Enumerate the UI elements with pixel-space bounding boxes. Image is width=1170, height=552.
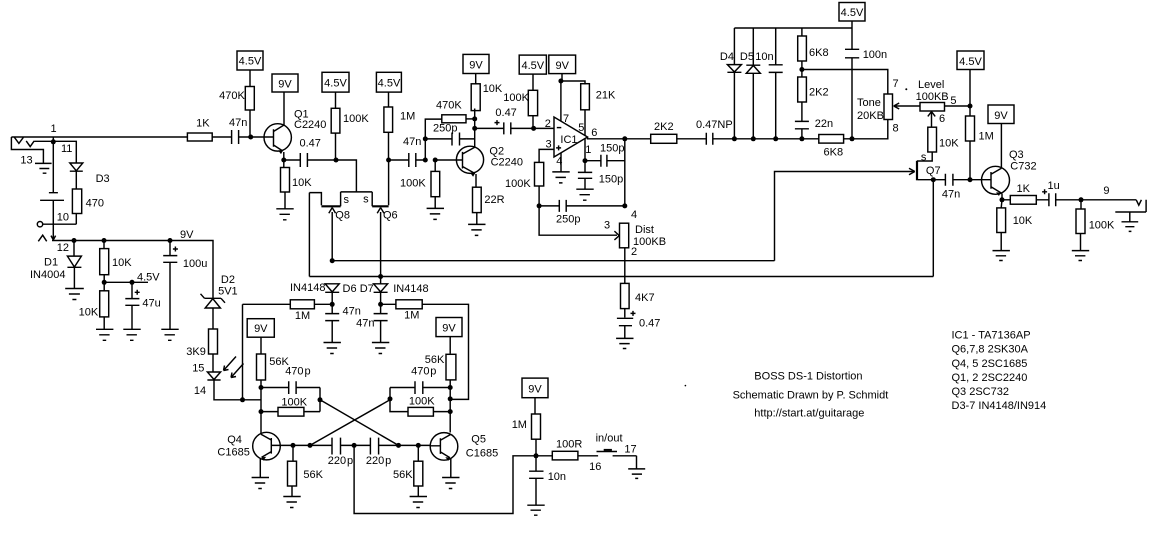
input jack J1 — [11, 137, 43, 163]
switch in/out — [604, 449, 612, 451]
legend line Q45 — [952, 358, 1028, 370]
svg-text:10n: 10n — [755, 51, 773, 63]
node (Q8 gate / D6) — [330, 258, 335, 263]
svg-text:IN4148: IN4148 — [393, 283, 428, 295]
svg-text:150p: 150p — [599, 174, 623, 186]
1M label — [979, 131, 994, 143]
470p label — [411, 365, 436, 377]
svg-text:0.47: 0.47 — [495, 107, 516, 119]
pin 2 label — [545, 118, 551, 130]
JFET Q7 — [916, 161, 918, 181]
47n label — [942, 188, 960, 200]
svg-text:470K: 470K — [436, 99, 462, 111]
transistor Q2 C2240 — [435, 146, 483, 187]
capacitor 100n — [845, 28, 859, 139]
resistor 6K8 (horizontal) — [819, 135, 844, 144]
wire (Dist bottom to 4K7) — [624, 248, 626, 284]
wire — [538, 186, 540, 206]
ground (47u) — [123, 329, 140, 340]
svg-text:470: 470 — [411, 365, 429, 377]
terminal 8 label — [893, 122, 899, 134]
6K8 label — [809, 47, 829, 59]
svg-text:0.47: 0.47 — [639, 317, 660, 329]
switch contact (battery switch) — [40, 193, 64, 201]
svg-text:3: 3 — [604, 219, 610, 231]
wire (Q5 base net) — [399, 444, 431, 446]
capacitor 250p (pin3) — [539, 200, 625, 212]
power 9V box (Q4) — [247, 319, 274, 338]
Level pot 100KB — [920, 103, 945, 112]
svg-text:4.5V: 4.5V — [841, 7, 864, 19]
svg-text:10K: 10K — [292, 177, 312, 189]
svg-text:1u: 1u — [1048, 180, 1060, 192]
svg-text:6K8: 6K8 — [809, 47, 829, 59]
2K2 label — [809, 86, 829, 98]
resistor 1M (switch out) — [532, 414, 541, 439]
node (Q6 gate / D7) — [378, 274, 383, 279]
svg-text:21K: 21K — [596, 89, 616, 101]
svg-text:IC1: IC1 — [560, 134, 577, 146]
svg-text:9V: 9V — [180, 229, 194, 241]
wire (cross-couple Q4 coll to Q5 base) — [320, 400, 399, 446]
wire (4.5V stub) — [104, 281, 148, 283]
IC1 label — [560, 134, 577, 146]
url text — [754, 408, 864, 420]
D4 label — [720, 51, 734, 63]
node 14 label — [194, 385, 206, 397]
legend line Q12 — [952, 372, 1028, 384]
resistor 470K bias — [245, 87, 254, 111]
legend line Q3 — [952, 386, 1009, 398]
22R label — [484, 194, 504, 206]
node 11 label — [61, 143, 72, 155]
wire — [449, 337, 451, 388]
svg-text:1M: 1M — [404, 309, 419, 321]
terminal 4 label — [631, 209, 637, 221]
47n label — [229, 117, 247, 129]
Q6 label — [383, 210, 398, 222]
svg-text:9V: 9V — [442, 323, 456, 335]
470 label — [86, 198, 104, 210]
1K label — [196, 118, 210, 130]
s label (Q7 source) — [921, 152, 927, 164]
svg-text:100n: 100n — [863, 49, 887, 61]
node (22n bottom) — [799, 136, 804, 141]
ground (Q5 base 56K) — [410, 497, 427, 508]
resistor 10K (Q1 emitter) — [281, 168, 290, 193]
10n label — [548, 471, 566, 483]
svg-text:0.47NP: 0.47NP — [696, 119, 733, 131]
svg-text:6K8: 6K8 — [824, 146, 844, 158]
svg-text:4.5V: 4.5V — [324, 78, 347, 90]
pin 3 wire — [539, 149, 554, 162]
svg-text:2: 2 — [631, 246, 637, 258]
pin 7 wire — [560, 81, 562, 121]
capacitor 47n (D7) — [374, 304, 388, 342]
svg-text:47u: 47u — [142, 298, 160, 310]
node (in/out junction) — [534, 453, 539, 458]
D2 label — [221, 274, 235, 286]
stray mark — [685, 385, 687, 387]
56K label — [303, 469, 323, 481]
svg-text:D4: D4 — [720, 51, 734, 63]
10K label — [292, 177, 312, 189]
svg-text:17: 17 — [624, 444, 636, 456]
legend line IC1 — [952, 330, 1031, 342]
svg-text:Q8: Q8 — [335, 210, 350, 222]
output jack J2 — [1115, 200, 1146, 212]
resistor 21K — [581, 84, 590, 110]
100K label — [409, 395, 435, 407]
power 4.5V box — [957, 51, 984, 70]
plus mark (100u) — [173, 247, 178, 252]
wire — [261, 388, 320, 412]
terminal 6 label — [939, 113, 945, 125]
svg-text:100K: 100K — [400, 178, 426, 190]
wire — [103, 282, 105, 329]
svg-text:Dist: Dist — [635, 224, 654, 236]
plus mark — [631, 311, 636, 316]
wire (D3 to 470) — [75, 171, 77, 224]
ground (22R) — [468, 224, 485, 235]
wire — [536, 455, 598, 457]
1K label — [1017, 183, 1031, 195]
ground (150p) — [576, 189, 593, 200]
node (Q1 emitter) — [281, 158, 286, 163]
ground (in/out switch) — [628, 456, 645, 479]
resistor 56K (Q4 base) — [288, 461, 297, 486]
transistor Q1 C2240 — [251, 92, 292, 160]
pin 4 label — [556, 155, 562, 167]
svg-text:Level: Level — [918, 79, 944, 91]
svg-text:Q5: Q5 — [471, 434, 486, 446]
Dist label — [635, 224, 654, 236]
light arrows (LED) — [224, 357, 244, 378]
resistor 2K2 (vertical) — [798, 77, 807, 102]
9V rail wire — [52, 241, 213, 299]
power 9V box (1M out) — [522, 378, 548, 398]
IN4148 label — [290, 282, 325, 294]
ground (47n D7) — [372, 343, 389, 354]
node 9 label — [1103, 185, 1109, 197]
10K label — [483, 83, 503, 95]
wire — [561, 74, 585, 85]
svg-text:C1685: C1685 — [466, 448, 498, 460]
svg-text:22n: 22n — [815, 118, 833, 130]
LED indicator diode — [207, 372, 220, 380]
svg-text:220: 220 — [328, 455, 346, 467]
stray mark — [905, 88, 907, 90]
100KB label — [916, 91, 949, 103]
node 12 label — [57, 242, 69, 254]
svg-text:56K: 56K — [425, 354, 445, 366]
node (D1 junction) — [72, 238, 77, 243]
wire — [417, 445, 419, 496]
node (pin1) — [583, 158, 588, 163]
capacitor 100u — [163, 241, 177, 330]
svg-text:Q3: Q3 — [1009, 149, 1024, 161]
svg-text:220: 220 — [366, 455, 384, 467]
node (Q5 1M tap) — [448, 396, 453, 401]
svg-text:15: 15 — [192, 363, 204, 375]
svg-text:1M: 1M — [512, 419, 527, 431]
220p label — [366, 455, 391, 467]
svg-text:56K: 56K — [303, 469, 323, 481]
100R label — [556, 439, 582, 451]
wire — [260, 337, 262, 387]
capacitor 10n (clip) — [769, 28, 783, 139]
resistor 56K (Q5 collector) — [446, 354, 456, 380]
capacitor 250p (Q2 fb) — [425, 133, 474, 146]
svg-text:470: 470 — [285, 365, 303, 377]
wire (cross-couple Q4 base to Q5 coll) — [310, 400, 390, 446]
ground (Q3 emitter) — [993, 251, 1010, 261]
terminal 5 label — [950, 95, 956, 107]
ground (divider) — [96, 329, 113, 340]
wire (to Tone pin8) — [844, 120, 888, 139]
svg-text:250p: 250p — [556, 214, 580, 226]
47n label — [343, 306, 361, 318]
wire — [103, 241, 105, 283]
node (Q4 coupling) — [318, 397, 323, 402]
wire (10K to Q7 drain) — [917, 152, 932, 161]
svg-text:s: s — [344, 194, 350, 206]
resistor 56K (Q5 base) — [414, 461, 423, 486]
svg-text:D1: D1 — [44, 257, 58, 269]
resistor 100R — [552, 451, 578, 460]
power 9V box — [988, 105, 1014, 124]
wire (riser to Dist) — [624, 139, 626, 206]
wire — [969, 70, 971, 107]
svg-text:1: 1 — [585, 144, 591, 156]
6K8 label — [824, 146, 844, 158]
wire — [969, 106, 971, 180]
wire (jack ring contact) — [34, 137, 53, 142]
Q3 label — [1009, 149, 1024, 161]
minus mark — [557, 127, 562, 129]
resistor 1M (Q3 bias) — [966, 116, 975, 141]
svg-text:100KB: 100KB — [633, 236, 666, 248]
node (D4 bottom) — [732, 136, 737, 141]
100n label — [863, 49, 887, 61]
legend line D37 — [952, 400, 1047, 412]
svg-text:100KB: 100KB — [916, 91, 949, 103]
svg-text:1M: 1M — [979, 131, 994, 143]
C1685 label — [217, 446, 249, 458]
node (Q2 base) — [433, 158, 438, 163]
svg-text:100K: 100K — [505, 178, 531, 190]
100KB label — [633, 236, 666, 248]
Q8 label — [335, 210, 350, 222]
svg-text:9V: 9V — [994, 110, 1008, 122]
svg-text:150p: 150p — [600, 143, 624, 155]
node (out riser) — [622, 136, 627, 141]
svg-text:4: 4 — [631, 209, 637, 221]
terminal 3 label — [604, 219, 610, 231]
100u label — [183, 258, 207, 270]
node (center tap) — [352, 443, 357, 448]
56K label — [425, 354, 445, 366]
node (100u junction) — [168, 238, 173, 243]
D1 label — [44, 257, 58, 269]
svg-text:1: 1 — [50, 123, 56, 135]
power 9V box — [272, 74, 298, 92]
power 4.5V box — [839, 3, 865, 22]
svg-text:Q7: Q7 — [926, 165, 941, 177]
power 4.5V box — [322, 72, 349, 92]
wire (ring down to switch) — [52, 142, 54, 193]
ground (Q5 emitter) — [442, 478, 459, 489]
resistor 10K (Q3 emitter) — [997, 208, 1006, 233]
svg-text:Tone: Tone — [857, 97, 881, 109]
wire — [466, 118, 475, 120]
resistor 470 — [72, 189, 81, 214]
capacitor 1u — [1049, 193, 1136, 206]
resistor 1M (D7) — [396, 300, 422, 309]
capacitor 150p (pin1 to out) — [585, 155, 625, 167]
diode D6 IN4148 — [325, 284, 339, 305]
capacitor 0.47 (IC1 input) — [475, 122, 534, 134]
svg-text:4K7: 4K7 — [635, 292, 655, 304]
svg-text:47n: 47n — [403, 136, 421, 148]
svg-text:100u: 100u — [183, 258, 207, 270]
resistor 100K (Q2 base) — [431, 171, 440, 196]
pin 7 label — [563, 113, 569, 125]
svg-text:4.5V: 4.5V — [239, 56, 262, 68]
IN4004 label — [30, 269, 65, 281]
diode D7 IN4148 — [374, 284, 388, 305]
svg-text:7: 7 — [563, 113, 569, 125]
svg-text:Q6: Q6 — [383, 210, 398, 222]
0.47 label — [639, 317, 660, 329]
resistor 10K (Q7 drain) — [928, 127, 937, 152]
C2240 label — [491, 157, 523, 169]
svg-text:2K2: 2K2 — [654, 121, 674, 133]
node (250p tap) — [423, 136, 428, 141]
svg-text:100K: 100K — [1089, 220, 1115, 232]
svg-text:470K: 470K — [219, 90, 245, 102]
wire — [476, 213, 478, 225]
power 4.5V box — [519, 55, 546, 74]
svg-text:BOSS DS-1 Distortion: BOSS DS-1 Distortion — [754, 371, 862, 383]
svg-text:http://start.at/guitarage: http://start.at/guitarage — [754, 408, 864, 420]
47n label — [403, 136, 421, 148]
svg-text:5V1: 5V1 — [218, 285, 238, 297]
node (Q8/Q6 source net) — [334, 158, 339, 163]
2K2 label — [654, 121, 674, 133]
svg-text:10K: 10K — [79, 307, 99, 319]
resistor 100K (mid bias) — [331, 108, 340, 133]
svg-text:4.5V: 4.5V — [521, 60, 544, 72]
credit text — [733, 390, 889, 402]
power 9V box (Q5) — [436, 318, 462, 337]
Tone wiper wire — [894, 103, 920, 109]
svg-text:10n: 10n — [548, 471, 566, 483]
pin 6 label — [591, 127, 597, 139]
svg-text:Q4: Q4 — [227, 434, 242, 446]
s label (Q8 source) — [344, 194, 350, 206]
node (pin2) — [531, 126, 536, 131]
ground (0.47) — [616, 338, 633, 348]
capacitor 470p (Q4) — [261, 381, 320, 394]
node (Q2 input) — [423, 158, 428, 163]
D7 label — [360, 283, 374, 295]
1M label — [512, 419, 527, 431]
node (100n bottom) — [850, 136, 855, 141]
5V1 label — [218, 285, 238, 297]
wire (D7 1M to Q5 collector) — [381, 304, 469, 399]
capacitor 470p (Q5) — [390, 381, 450, 394]
svg-text:C2240: C2240 — [491, 157, 523, 169]
wire — [1002, 199, 1049, 201]
node (9V pin7) — [558, 79, 563, 84]
node (Q5 base 56K) — [416, 443, 421, 448]
capacitor 47u — [125, 282, 139, 329]
1u label — [1048, 180, 1060, 192]
transistor Q5 C1685 — [430, 433, 458, 478]
terminal 2 label — [631, 246, 637, 258]
Q2 label — [489, 146, 504, 158]
wire (center tap to bottom line) — [354, 445, 536, 513]
pin 1 label — [585, 144, 591, 156]
Q5 label — [471, 434, 486, 446]
transistor Q3 C732 — [970, 124, 1010, 200]
220p label — [328, 455, 353, 467]
D5 label — [740, 51, 754, 63]
terminal 7 label — [893, 78, 899, 90]
pin 2 wire — [534, 127, 554, 129]
node 15 label — [192, 363, 204, 375]
wire — [335, 92, 337, 160]
100K label — [503, 92, 529, 104]
10K label — [112, 257, 132, 269]
wire — [1000, 200, 1003, 251]
ground (100u) — [161, 329, 178, 340]
svg-text:7: 7 — [893, 78, 899, 90]
transistor Q4 C1685 — [253, 432, 293, 477]
wire (4.5V to 470K to base) — [249, 70, 251, 137]
svg-text:14: 14 — [194, 385, 206, 397]
wire — [292, 445, 293, 496]
capacitor 0.47NP — [677, 133, 819, 145]
node 16 label — [589, 461, 601, 473]
100K label — [505, 178, 531, 190]
wire — [532, 74, 534, 128]
zener diode D2 5V1 — [201, 294, 226, 329]
diode D1 — [67, 241, 81, 289]
svg-text:C732: C732 — [1010, 161, 1036, 173]
svg-text:22R: 22R — [484, 194, 504, 206]
resistor 100K (output) — [1076, 209, 1085, 234]
wire (to Tone pin7) — [802, 70, 888, 95]
wire (Q8 drain to bypass line) — [308, 193, 310, 277]
svg-text:IN4004: IN4004 — [30, 269, 65, 281]
capacitor 47n (output) — [933, 174, 970, 186]
BOSS DS-1 title text — [754, 371, 862, 383]
pin 4 wire — [560, 153, 562, 172]
svg-text:8: 8 — [893, 122, 899, 134]
resistor 4K7 — [621, 283, 630, 308]
svg-text:6: 6 — [591, 127, 597, 139]
node (tone HP net) — [799, 67, 804, 72]
svg-text:in/out: in/out — [596, 433, 623, 445]
150p label — [600, 143, 624, 155]
power 4.5V box — [237, 51, 263, 70]
svg-text:11: 11 — [61, 143, 72, 155]
svg-text:47n: 47n — [343, 306, 361, 318]
1M label — [404, 309, 419, 321]
svg-text:16: 16 — [589, 461, 601, 473]
